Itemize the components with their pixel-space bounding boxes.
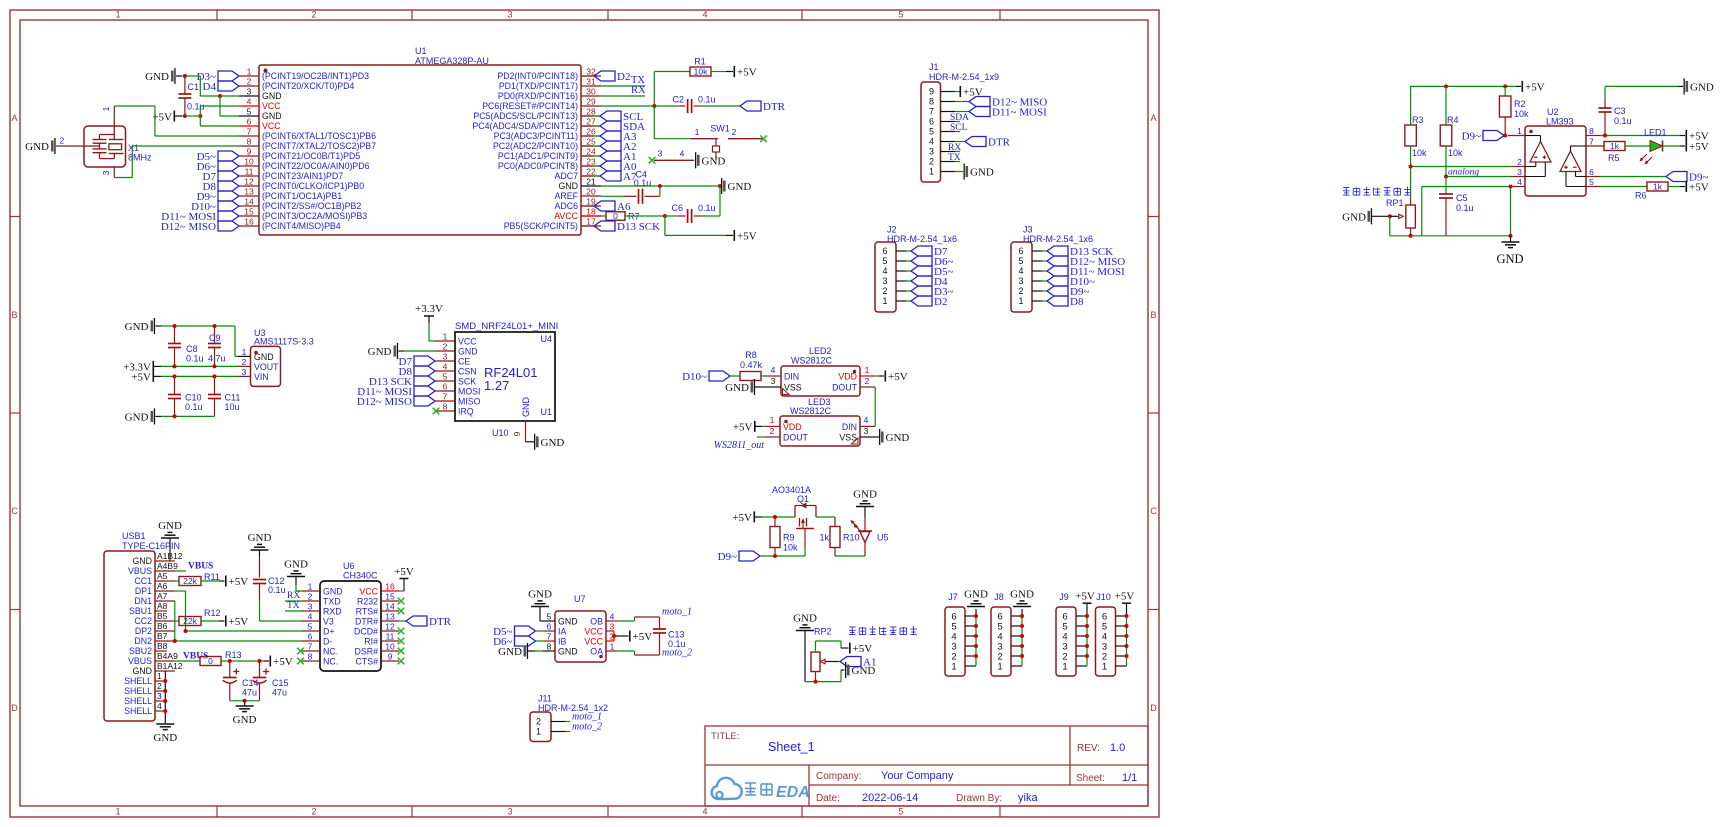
ground GND at LED2 VSS (725, 379, 766, 395)
svg-text:A6: A6 (157, 581, 168, 591)
connector J1 HDR-M-2.54_1x9 (921, 62, 999, 182)
svg-text:AMS1117S-3.3: AMS1117S-3.3 (254, 337, 314, 347)
svg-text:NC.: NC. (323, 656, 338, 666)
net label analong (1448, 168, 1479, 178)
node junctions GND net (1509, 185, 1513, 238)
svg-text:D12~ MISO: D12~ MISO (357, 396, 412, 408)
node junction AGND (658, 184, 722, 188)
svg-text:GND: GND (1690, 81, 1714, 93)
node junction D- (173, 639, 177, 643)
wire (665, 216, 733, 235)
svg-text:(PCINT2/SS#/OC1B)PB2: (PCINT2/SS#/OC1B)PB2 (262, 201, 361, 211)
capacitor C5 0.1u (1439, 177, 1474, 236)
svg-text:GND: GND (25, 141, 49, 153)
svg-text:VBUS: VBUS (128, 566, 152, 576)
svg-text:RP1: RP1 (1386, 198, 1404, 208)
svg-text:GND: GND (853, 489, 877, 501)
svg-text:D2: D2 (617, 71, 630, 83)
capacitor C3 0.1u (1599, 98, 1632, 136)
net flag D9~ at U2 pin1 (1462, 131, 1504, 143)
svg-text:R8: R8 (745, 350, 757, 360)
LED U5 (851, 517, 889, 556)
svg-text:+5V: +5V (732, 512, 752, 524)
svg-text:11: 11 (245, 167, 254, 177)
ground GND top right (1684, 78, 1714, 94)
svg-text:U7: U7 (574, 594, 586, 604)
svg-text:ADC6: ADC6 (555, 201, 579, 211)
svg-text:2: 2 (1517, 157, 1522, 167)
motor driver U7 (543, 594, 618, 662)
svg-text:1k: 1k (1653, 182, 1663, 192)
svg-text:RTS#: RTS# (356, 606, 378, 616)
svg-text:1: 1 (308, 582, 313, 592)
svg-text:DOUT: DOUT (832, 383, 858, 393)
svg-text:GND: GND (498, 646, 522, 658)
svg-text:LM393: LM393 (1546, 117, 1574, 127)
svg-text:GND: GND (233, 714, 257, 726)
svg-text:2: 2 (308, 592, 313, 602)
svg-text:3: 3 (443, 352, 448, 362)
svg-text:10k: 10k (694, 67, 708, 77)
svg-text:D-: D- (323, 636, 332, 646)
svg-text:10k: 10k (1412, 148, 1427, 158)
svg-text:26: 26 (586, 127, 596, 137)
resistor R5 1k (1604, 141, 1650, 163)
svg-text:J10: J10 (1096, 592, 1111, 602)
net flag DTR on J1 pin4 (948, 137, 1011, 154)
svg-text:RI#: RI# (364, 636, 378, 646)
svg-text:1.27: 1.27 (484, 378, 509, 393)
svg-text:CTS#: CTS# (356, 656, 379, 666)
svg-text:+5V: +5V (888, 371, 908, 383)
svg-text:4: 4 (247, 97, 252, 107)
node junction RP1 wiper (1388, 214, 1392, 218)
capacitor C2 0.1u (654, 95, 740, 114)
connector J11 HDR-M-2.54_1x2 (530, 694, 608, 742)
svg-text:A: A (1150, 113, 1156, 123)
svg-text:0: 0 (613, 211, 618, 221)
svg-text:R12: R12 (204, 608, 221, 618)
svg-text:DIN: DIN (784, 372, 799, 382)
svg-text:PC5(ADC5/SCL/PCINT13): PC5(ADC5/SCL/PCINT13) (473, 111, 578, 121)
svg-text:2: 2 (443, 342, 448, 352)
svg-text:0.1u: 0.1u (698, 95, 716, 105)
capacitor C14 47u (223, 661, 259, 701)
svg-text:4: 4 (929, 137, 934, 147)
svg-text:3: 3 (610, 622, 615, 632)
svg-text:U2: U2 (1547, 107, 1559, 117)
svg-text:1: 1 (157, 671, 162, 681)
svg-text:6: 6 (882, 246, 887, 256)
svg-text:PC3(ADC3/PCINT11): PC3(ADC3/PCINT11) (494, 131, 578, 141)
svg-text:CC2: CC2 (134, 616, 152, 626)
ground GND at U7 pin8 (498, 643, 543, 659)
svg-text:ADC7: ADC7 (555, 171, 579, 181)
resistor R4 10k (1440, 86, 1463, 158)
svg-text:(PCINT22/OC0A/AIN0)PD6: (PCINT22/OC0A/AIN0)PD6 (262, 161, 370, 171)
svg-text:8: 8 (443, 402, 448, 412)
svg-text:GND: GND (262, 111, 282, 121)
svg-text:IA: IA (558, 626, 566, 636)
svg-text:SDA: SDA (950, 113, 969, 123)
svg-text:5: 5 (443, 372, 448, 382)
svg-text:10k: 10k (1514, 109, 1529, 119)
node junctions J9 (1085, 614, 1089, 658)
ground GND at LED3 VSS (875, 429, 909, 445)
svg-text:4: 4 (1018, 266, 1023, 276)
svg-text:+5V: +5V (733, 422, 753, 434)
resistor R1 10k (690, 57, 711, 77)
svg-text:2: 2 (242, 357, 247, 367)
svg-text:DN2: DN2 (134, 636, 152, 646)
switch SW1 (654, 124, 763, 161)
capacitor C11 10u (208, 376, 240, 416)
svg-text:B4A9: B4A9 (157, 651, 178, 661)
svg-text:+5V: +5V (229, 616, 249, 628)
svg-text:MISO: MISO (458, 396, 481, 406)
svg-text:J1: J1 (929, 62, 939, 72)
svg-text:C: C (1150, 506, 1157, 516)
net label RX wire pin30 (601, 85, 646, 96)
node junctions J10 (1125, 614, 1129, 658)
wire (185, 76, 239, 96)
connector J7 (945, 589, 988, 677)
svg-text:1: 1 (610, 642, 615, 652)
wire (220, 96, 239, 116)
svg-text:1k: 1k (819, 533, 829, 543)
svg-text:8: 8 (547, 642, 552, 652)
resistor R3 10k (1405, 86, 1427, 158)
node junction RESET (652, 104, 656, 108)
resistor R11 22k (175, 572, 225, 586)
svg-text:D+: D+ (323, 626, 335, 636)
svg-text:GND: GND (964, 589, 988, 601)
svg-text:MOSI: MOSI (458, 386, 480, 396)
svg-text:5: 5 (547, 612, 552, 622)
net label moto_1 (662, 607, 692, 618)
svg-text:C: C (11, 506, 18, 516)
connector J3 HDR-M-2.54_1x6 (1011, 225, 1093, 313)
svg-text:12: 12 (385, 622, 395, 632)
svg-text:AREF: AREF (555, 191, 579, 201)
svg-text:SHELL: SHELL (124, 706, 152, 716)
svg-text:(PCINT0/CLKO/ICP1)PB0: (PCINT0/CLKO/ICP1)PB0 (262, 181, 364, 191)
svg-text:1: 1 (1062, 661, 1067, 672)
ground GND at C1 (145, 68, 182, 84)
svg-text:B8: B8 (157, 641, 168, 651)
svg-text:3: 3 (247, 87, 252, 97)
net label SCL on J1 pin6 (950, 123, 968, 133)
svg-text:(PCINT20/XCK/T0)PD4: (PCINT20/XCK/T0)PD4 (262, 81, 354, 91)
svg-text:1: 1 (882, 296, 887, 306)
svg-text:R13: R13 (225, 650, 242, 660)
svg-text:10u: 10u (225, 402, 240, 412)
svg-text:3: 3 (929, 147, 934, 157)
svg-text:4.7u: 4.7u (208, 354, 226, 364)
svg-text:IRQ: IRQ (458, 406, 474, 416)
capacitor C13 0.1u (653, 617, 686, 655)
svg-text:WS2812C: WS2812C (791, 356, 833, 366)
svg-text:SMD_NRF24L01+_MINI: SMD_NRF24L01+_MINI (455, 321, 558, 332)
svg-text:4: 4 (1517, 177, 1522, 187)
svg-text:C8: C8 (186, 344, 198, 354)
svg-text:C11: C11 (225, 393, 241, 403)
LED LED1 (1640, 128, 1686, 165)
svg-text:CH340C: CH340C (343, 571, 378, 581)
svg-text:1: 1 (695, 127, 700, 137)
svg-text:8: 8 (929, 97, 934, 107)
power flag +5V at LED2 VDD (875, 371, 908, 384)
svg-text:USB1: USB1 (122, 531, 146, 541)
svg-text:0.1u: 0.1u (1456, 203, 1474, 213)
svg-text:yika: yika (1018, 792, 1038, 804)
svg-text:6: 6 (443, 382, 448, 392)
svg-text:5: 5 (247, 107, 252, 117)
capacitor C12 0.1u (253, 556, 286, 601)
power flag +5V at U2 pin8 (1686, 130, 1709, 143)
wire (835, 555, 865, 557)
svg-text:VSS: VSS (784, 383, 802, 393)
svg-text:18: 18 (586, 207, 596, 217)
svg-text:OB: OB (590, 616, 603, 626)
svg-text:7: 7 (547, 632, 552, 642)
svg-text:ATMEGA328P-AU: ATMEGA328P-AU (415, 56, 489, 66)
svg-text:D10~: D10~ (682, 371, 707, 383)
svg-text:D8: D8 (1070, 296, 1084, 308)
svg-text:9: 9 (512, 431, 522, 436)
wire pin4 GND net (1422, 187, 1511, 236)
svg-text:SBU1: SBU1 (129, 606, 152, 616)
svg-text:1: 1 (1018, 296, 1023, 306)
net flags on U4 SPI pins (357, 356, 435, 408)
svg-text:PC0(ADC0/PCINT8): PC0(ADC0/PCINT8) (498, 161, 578, 171)
svg-text:X1: X1 (128, 143, 139, 153)
svg-text:GND: GND (793, 613, 817, 625)
svg-text:IB: IB (558, 636, 566, 646)
svg-text:J3: J3 (1023, 225, 1033, 235)
wire (161, 415, 215, 417)
svg-text:J7: J7 (948, 592, 958, 602)
svg-text:GND: GND (368, 346, 392, 358)
svg-text:21: 21 (586, 177, 596, 187)
svg-text:2: 2 (311, 807, 316, 817)
svg-text:9: 9 (247, 147, 252, 157)
LED driver LED2 WS2812C (766, 346, 875, 396)
node junction (814, 680, 818, 684)
net label RX at U6 TXD (285, 591, 302, 601)
wire R4 to pin3 analong (1446, 146, 1511, 177)
node junction (173, 374, 217, 378)
net flag DTR at U6 (399, 616, 452, 628)
wire (161, 375, 238, 377)
wire V3 net (260, 601, 303, 621)
svg-text:11: 11 (386, 632, 395, 642)
wire (161, 365, 238, 367)
wire (230, 700, 260, 702)
svg-text:V3: V3 (323, 616, 334, 626)
svg-text:1k: 1k (1610, 141, 1620, 151)
svg-text:3: 3 (771, 376, 776, 386)
svg-text:DTR#: DTR# (355, 616, 378, 626)
svg-text:1: 1 (770, 415, 775, 425)
power flag +5V at R6 (1686, 181, 1709, 194)
node junction (173, 364, 217, 368)
svg-text:moto_2: moto_2 (662, 648, 692, 659)
svg-text:Your Company: Your Company (881, 770, 954, 782)
svg-text:22k: 22k (183, 576, 197, 586)
svg-text:EDA: EDA (776, 784, 810, 801)
svg-text:GND: GND (558, 616, 578, 626)
voltage regulator U3 AMS1117S-3.3 (238, 328, 314, 386)
wire OA to moto_2 (618, 651, 660, 655)
svg-text:WS2812C: WS2812C (790, 406, 832, 416)
svg-text:5: 5 (308, 622, 313, 632)
svg-text:0.1u: 0.1u (185, 402, 203, 412)
svg-text:SHELL: SHELL (124, 686, 152, 696)
net label WS2811_out (714, 437, 765, 451)
svg-text:SW1: SW1 (710, 124, 730, 134)
ground GND top rail (125, 318, 161, 334)
svg-text:6: 6 (247, 117, 252, 127)
svg-text:VOUT: VOUT (254, 362, 279, 372)
connector J8 (991, 589, 1034, 677)
svg-text:B: B (11, 310, 17, 320)
power flag +5V at R12 (225, 616, 248, 629)
power flag +5V at U6 VCC (394, 566, 414, 591)
svg-text:4: 4 (443, 362, 448, 372)
node junction VBUS-5V (228, 659, 262, 663)
node junction analong (1444, 175, 1448, 179)
svg-text:R4: R4 (1447, 115, 1459, 125)
svg-text:1: 1 (1102, 661, 1107, 672)
svg-text:DN1: DN1 (134, 596, 152, 606)
wire (711, 71, 733, 73)
svg-text:1: 1 (101, 106, 111, 111)
svg-text:C13: C13 (668, 630, 685, 640)
svg-text:2: 2 (865, 376, 870, 386)
svg-text:3: 3 (658, 149, 663, 159)
svg-text:7: 7 (929, 107, 934, 117)
potentiometer RP1 (1390, 198, 1416, 236)
ground GND below C14 C15 (233, 701, 257, 726)
resistor R12 22k (175, 608, 225, 626)
wire (429, 323, 435, 341)
power flag +5V at U7 (629, 631, 652, 644)
svg-text:+5V: +5V (131, 372, 151, 384)
wire D- net (175, 640, 302, 642)
svg-text:SHELL: SHELL (124, 696, 152, 706)
svg-text:+5V: +5V (1689, 141, 1709, 153)
svg-text:+5V: +5V (273, 656, 293, 668)
svg-text:(PCINT1/OC1A)PB1: (PCINT1/OC1A)PB1 (262, 191, 342, 201)
wire (114, 106, 239, 136)
wire (654, 106, 691, 139)
net flag D2 on pin32 (581, 71, 630, 83)
crystal X1 8MHz (56, 106, 152, 178)
net flag D10~ (682, 371, 730, 383)
svg-text:+5V: +5V (853, 643, 873, 655)
svg-text:6: 6 (308, 632, 313, 642)
svg-text:C15: C15 (272, 678, 289, 688)
svg-text:0.1u: 0.1u (268, 585, 286, 595)
svg-text:analong: analong (1448, 168, 1479, 178)
svg-text:PB5(SCK/PCINT5): PB5(SCK/PCINT5) (504, 221, 578, 231)
LCEDA logo (712, 778, 810, 801)
svg-text:TX: TX (287, 601, 300, 611)
svg-text:10k: 10k (783, 543, 798, 553)
wire pin21 GND (601, 185, 720, 187)
svg-text:Sheet_1: Sheet_1 (768, 740, 815, 754)
svg-text:14: 14 (385, 602, 395, 612)
svg-text:2: 2 (770, 426, 775, 436)
wire SHELL pins (164, 671, 166, 723)
svg-text:0.1u: 0.1u (186, 354, 204, 364)
power flag +3.3V rail (123, 361, 161, 374)
svg-text:D9~: D9~ (1462, 131, 1481, 143)
svg-text:J9: J9 (1059, 592, 1069, 602)
power flag +5V rail (131, 371, 161, 384)
node junction +5V net (183, 114, 202, 118)
ground GND bottom rail (125, 408, 161, 424)
transistor Q1 AO3401A (795, 503, 816, 547)
svg-text:20: 20 (586, 187, 596, 197)
svg-text:LED2: LED2 (809, 346, 832, 356)
capacitor C1 0.1u (178, 76, 204, 116)
svg-text:GND: GND (458, 346, 478, 356)
svg-text:CSN: CSN (458, 366, 477, 376)
svg-text:RX: RX (948, 143, 961, 153)
svg-text:(PCINT7/XTAL2/TOSC2)PB7: (PCINT7/XTAL2/TOSC2)PB7 (262, 141, 376, 151)
node junctions SHELL (163, 679, 167, 713)
wire RESET net (601, 72, 690, 107)
svg-text:VDD: VDD (838, 372, 857, 382)
svg-text:3: 3 (157, 691, 162, 701)
svg-text:29: 29 (586, 97, 596, 107)
wire R3 to pin2 (1411, 146, 1511, 198)
svg-text:8: 8 (247, 137, 252, 147)
svg-text:4: 4 (702, 10, 707, 20)
svg-text:+3.3V: +3.3V (415, 303, 443, 315)
comparator U2 LM393 (1508, 107, 1604, 196)
wire LED2 DOUT to LED3 DIN (874, 387, 876, 426)
svg-text:3: 3 (507, 807, 512, 817)
svg-text:0.1u: 0.1u (1614, 116, 1632, 126)
svg-text:C9: C9 (209, 333, 221, 343)
svg-text:GND: GND (970, 167, 994, 179)
node junction (173, 414, 177, 418)
svg-text:NC.: NC. (323, 646, 338, 656)
svg-text:Q1: Q1 (797, 494, 809, 504)
svg-text:1: 1 (443, 332, 448, 342)
net label VBUS at R13 (175, 652, 208, 662)
resistor R6 1k (1600, 182, 1685, 201)
svg-text:GND: GND (886, 432, 910, 444)
svg-text:GND: GND (521, 397, 531, 418)
ground GND above C12 (248, 532, 272, 556)
svg-text:5: 5 (1018, 256, 1023, 266)
wire DN1 (174, 601, 176, 641)
svg-text:2: 2 (882, 286, 887, 296)
capacitor C10 0.1u (168, 376, 203, 416)
power flag +5V at LED1 (1686, 141, 1709, 154)
svg-text:D2: D2 (934, 296, 947, 308)
svg-text:Sheet:: Sheet: (1076, 773, 1105, 784)
ground GND at SW1 pin4 (695, 152, 725, 168)
svg-text:GND: GND (125, 321, 149, 333)
svg-text:16: 16 (244, 217, 254, 227)
svg-text:VCC: VCC (458, 336, 477, 346)
svg-text:SCL: SCL (950, 123, 968, 133)
